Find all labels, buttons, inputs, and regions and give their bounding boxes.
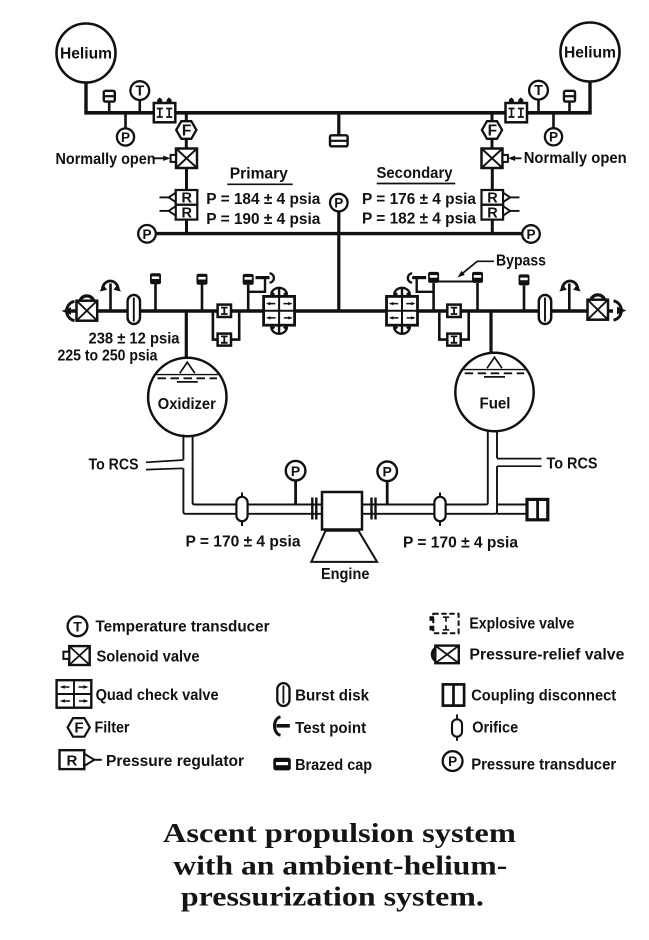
svg-text:Fuel: Fuel bbox=[480, 396, 511, 413]
test point on stem right bbox=[559, 281, 580, 311]
to RCS branch right bbox=[497, 456, 598, 473]
fuel feed pipe (double wall) bbox=[362, 431, 527, 514]
svg-text:P = 176 ± 4 psia: P = 176 ± 4 psia bbox=[362, 191, 476, 208]
svg-text:P: P bbox=[121, 130, 130, 145]
oxidizer tank bbox=[148, 358, 226, 436]
legend test point bbox=[275, 717, 367, 737]
svg-text:Solenoid valve: Solenoid valve bbox=[97, 649, 200, 666]
svg-text:P = 170 ± 4 psia: P = 170 ± 4 psia bbox=[403, 535, 518, 552]
pressure transducer P below top line right bbox=[545, 113, 562, 146]
svg-text:Ascent propulsion system: Ascent propulsion system bbox=[163, 818, 517, 848]
test point elbow left bypass bbox=[248, 273, 274, 291]
brazed cap top-left bbox=[104, 91, 115, 113]
quad check valve right bbox=[387, 288, 418, 335]
legend burst disk bbox=[277, 683, 369, 706]
arrow to solenoid right bbox=[508, 156, 522, 161]
svg-text:P: P bbox=[549, 130, 558, 145]
wire regulators to secondary line right bbox=[491, 220, 494, 234]
explosive valve right bbox=[506, 97, 528, 122]
svg-text:Engine: Engine bbox=[321, 566, 370, 583]
explosive valve left bbox=[154, 97, 176, 122]
coupling marks engine right bbox=[372, 498, 376, 520]
solenoid valve right (normally open) bbox=[482, 149, 508, 169]
svg-text:P: P bbox=[291, 463, 300, 479]
svg-text:Bypass: Bypass bbox=[496, 252, 546, 269]
wire center drop from top manifold bbox=[337, 113, 340, 136]
svg-text:P = 184 ± 4 psia: P = 184 ± 4 psia bbox=[206, 191, 320, 208]
test point elbow right bypass bbox=[408, 273, 434, 291]
temperature transducer T left bbox=[130, 81, 149, 113]
test point on stem left bbox=[100, 281, 121, 311]
svg-text:Coupling disconnect: Coupling disconnect bbox=[471, 688, 617, 705]
svg-text:238 ± 12 psia: 238 ± 12 psia bbox=[89, 331, 180, 348]
label Primary bbox=[227, 166, 292, 185]
filter F left bbox=[176, 113, 196, 149]
brazed cap on stem (right of fuel junction) bbox=[519, 274, 530, 311]
pressure regulator left upper bbox=[160, 190, 198, 207]
legend orifice bbox=[452, 714, 518, 740]
svg-text:Secondary: Secondary bbox=[377, 165, 453, 182]
pressure regulator right upper bbox=[482, 190, 520, 207]
svg-text:Pressure transducer: Pressure transducer bbox=[471, 757, 616, 774]
svg-text:Brazed cap: Brazed cap bbox=[295, 757, 372, 774]
to RCS branch left bbox=[89, 457, 184, 474]
check valve right inline bbox=[447, 305, 460, 317]
svg-text:Orifice: Orifice bbox=[472, 720, 518, 737]
svg-text:Normally open: Normally open bbox=[56, 151, 156, 168]
svg-text:pressurization system.: pressurization system. bbox=[181, 882, 484, 912]
svg-text:P = 182 ± 4 psia: P = 182 ± 4 psia bbox=[362, 211, 476, 228]
wire junction down to oxidizer tank bbox=[185, 311, 188, 359]
brazed cap on stem with test point elbow (left) bbox=[243, 274, 254, 311]
pressure-relief valve right bbox=[588, 295, 609, 320]
coupling marks engine left bbox=[312, 498, 316, 520]
orifice on oxidizer line bbox=[236, 493, 247, 527]
legend temperature transducer bbox=[68, 616, 270, 636]
solenoid valve left (normally open) bbox=[171, 149, 197, 169]
svg-text:Filter: Filter bbox=[95, 720, 130, 737]
test point left end of middle manifold bbox=[62, 301, 75, 320]
temperature transducer T right bbox=[529, 81, 548, 113]
svg-text:P: P bbox=[334, 196, 343, 211]
svg-text:Primary: Primary bbox=[230, 166, 288, 183]
svg-text:T: T bbox=[73, 618, 82, 634]
svg-text:P: P bbox=[142, 227, 151, 242]
svg-text:P = 170 ± 4 psia: P = 170 ± 4 psia bbox=[186, 534, 301, 551]
check valve left inline bbox=[218, 305, 231, 317]
wire middle manifold bbox=[66, 309, 613, 312]
check valve left loop bottom bbox=[218, 334, 231, 346]
wire solenoid to regulators right bbox=[491, 168, 494, 190]
pressure transducer P center bbox=[330, 194, 348, 234]
burst disk left bbox=[128, 295, 140, 324]
legend quad check valve bbox=[57, 680, 219, 708]
engine bell bbox=[311, 531, 377, 562]
svg-text:R: R bbox=[487, 205, 498, 221]
legend filter bbox=[68, 718, 130, 737]
brazed cap top-right bbox=[564, 91, 575, 113]
burst disk right bbox=[539, 295, 551, 324]
coupling disconnect fuel line end bbox=[527, 499, 548, 519]
engine block bbox=[322, 492, 362, 530]
helium tank left bbox=[57, 24, 116, 83]
svg-text:T: T bbox=[534, 83, 543, 99]
arrow to solenoid left bbox=[153, 156, 171, 161]
label Bypass with arrow bbox=[458, 252, 547, 277]
svg-text:Burst disk: Burst disk bbox=[295, 688, 369, 705]
wire top manifold bbox=[84, 111, 591, 115]
legend pressure regulator bbox=[60, 750, 245, 770]
brazed cap bypass stem 1 bbox=[428, 272, 439, 311]
wire helium right drop bbox=[588, 82, 591, 113]
legend pressure transducer bbox=[443, 751, 617, 773]
orifice on fuel line bbox=[434, 493, 445, 527]
svg-text:Test point: Test point bbox=[295, 720, 367, 737]
svg-text:Quad check valve: Quad check valve bbox=[96, 687, 219, 704]
svg-text:To RCS: To RCS bbox=[89, 457, 139, 474]
pressure transducer P below top line left bbox=[117, 113, 134, 146]
wire solenoid to regulators left bbox=[185, 168, 188, 190]
svg-text:Explosive valve: Explosive valve bbox=[469, 616, 574, 633]
svg-text:F: F bbox=[182, 123, 191, 140]
svg-text:R: R bbox=[181, 205, 192, 221]
wire center drop secondary to middle manifold bbox=[337, 234, 340, 311]
svg-text:Pressure regulator: Pressure regulator bbox=[106, 753, 244, 770]
wire bypass top line bbox=[434, 281, 478, 283]
wire helium left drop bbox=[84, 83, 87, 113]
legend coupling disconnect bbox=[443, 684, 617, 705]
wire regulators to secondary line left bbox=[185, 220, 188, 234]
fuel tank bbox=[455, 353, 533, 431]
svg-text:P: P bbox=[383, 464, 392, 480]
legend solenoid valve bbox=[63, 646, 199, 665]
svg-text:F: F bbox=[74, 720, 83, 737]
legend brazed cap bbox=[273, 757, 372, 774]
filter F right bbox=[482, 113, 502, 149]
svg-text:T: T bbox=[135, 84, 144, 100]
pressure transducer P oxidizer line bbox=[286, 461, 306, 505]
pressure transducer P fuel line bbox=[377, 462, 397, 505]
pressure regulator right lower bbox=[482, 205, 520, 222]
helium tank right bbox=[561, 23, 620, 82]
pressure transducer P secondary left end bbox=[138, 225, 156, 243]
svg-text:with an ambient-helium-: with an ambient-helium- bbox=[173, 851, 507, 881]
label Secondary bbox=[377, 165, 456, 184]
brazed cap on stem (left of oxidizer junction) bbox=[150, 273, 161, 311]
pressure transducer P secondary right end bbox=[522, 225, 540, 243]
brazed cap bypass stem 2 bbox=[472, 272, 483, 311]
check valve right loop bottom bbox=[447, 334, 460, 346]
oxidizer feed pipe (double wall) bbox=[183, 435, 322, 514]
legend pressure-relief valve bbox=[432, 646, 624, 664]
legend explosive valve bbox=[430, 614, 575, 633]
svg-text:Temperature transducer: Temperature transducer bbox=[96, 619, 270, 636]
svg-text:Normally open: Normally open bbox=[524, 150, 627, 167]
wire check-valve bypass loop left bbox=[213, 311, 239, 340]
svg-text:To RCS: To RCS bbox=[547, 456, 598, 473]
brazed cap center bbox=[330, 135, 348, 146]
test point right end of middle manifold bbox=[614, 301, 627, 320]
svg-text:R: R bbox=[66, 752, 77, 769]
svg-text:P = 190 ± 4 psia: P = 190 ± 4 psia bbox=[206, 211, 320, 228]
wire check-valve bypass loop right bbox=[439, 311, 468, 340]
svg-text:225 to 250 psia: 225 to 250 psia bbox=[58, 348, 158, 365]
brazed cap on stem (right of oxidizer junction) bbox=[197, 274, 208, 311]
svg-text:Oxidizer: Oxidizer bbox=[158, 396, 216, 413]
pressure-relief valve left bbox=[77, 296, 98, 321]
svg-text:F: F bbox=[488, 123, 497, 140]
wire junction down to fuel tank bbox=[489, 311, 492, 356]
wire secondary manifold bbox=[150, 232, 528, 235]
svg-text:P: P bbox=[526, 227, 535, 242]
svg-text:Pressure-relief valve: Pressure-relief valve bbox=[469, 647, 624, 664]
pressure regulator left lower bbox=[160, 205, 198, 222]
svg-text:P: P bbox=[448, 754, 457, 769]
quad check valve left bbox=[264, 288, 295, 335]
svg-text:Helium: Helium bbox=[60, 46, 112, 63]
svg-text:Helium: Helium bbox=[564, 45, 616, 62]
